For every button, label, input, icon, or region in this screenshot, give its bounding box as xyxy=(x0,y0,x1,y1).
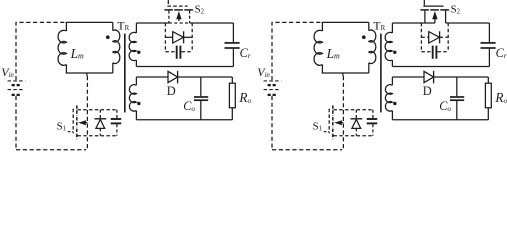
capacitor C1 bottom plate xyxy=(111,122,122,124)
transformer primary polarity dot xyxy=(362,35,366,39)
switch S2 gate lead xyxy=(423,0,425,6)
wire bottom return rail (dashed) xyxy=(272,149,342,151)
diode D1 triangle xyxy=(352,119,361,128)
transformer TR primary winding xyxy=(112,22,114,30)
switch S1 channel segments xyxy=(332,105,334,116)
capacitor Co bottom plate xyxy=(450,99,464,101)
capacitor Cr bottom plate xyxy=(225,47,240,49)
switch S1 channel segments xyxy=(76,105,78,116)
S2 snubber box right side (dashed) xyxy=(191,23,193,52)
capacitor Co top plate xyxy=(194,96,208,98)
wire primary loop top xyxy=(322,21,369,23)
wire top rail under S2 body lead xyxy=(425,22,435,24)
switch S2 channel segments xyxy=(420,9,429,11)
switch S1 gate bar (dashed) xyxy=(72,109,74,134)
battery Vin plate long 2 xyxy=(264,89,281,91)
switch S2 source lead xyxy=(189,11,191,23)
wire S1 drain rail (dashed) xyxy=(86,76,88,150)
switch S2 gate lead xyxy=(167,0,169,6)
transformer TR primary winding xyxy=(368,22,370,30)
diode D1 cathode bar xyxy=(350,118,362,120)
wire upper cell top rail left xyxy=(136,22,169,24)
wire S1 drain rail (dashed) xyxy=(342,76,344,150)
diode D2 triangle xyxy=(173,32,184,43)
capacitor Cr top plate xyxy=(225,42,240,44)
resistor Ro bottom lead xyxy=(487,108,489,120)
wire upper cell top rail right xyxy=(190,22,234,24)
diode D2 cathode bar xyxy=(183,31,185,43)
wire lower cell top rail left xyxy=(392,76,424,78)
diode D2 cathode lead xyxy=(440,36,449,38)
diode D2 anode lead xyxy=(165,36,172,38)
S2 snubber box right side (dashed) xyxy=(447,23,449,52)
wire primary loop bottom xyxy=(66,72,113,74)
battery Vin plate short 1 xyxy=(268,84,277,86)
capacitor C2 left plate xyxy=(176,46,178,59)
capacitor Cr top plate xyxy=(481,42,496,44)
switch S2 drain lead xyxy=(168,11,170,23)
wire top rail under S2 (dashed) xyxy=(169,22,190,24)
diode D cathode bar xyxy=(433,71,435,84)
capacitor Co top lead xyxy=(456,77,458,96)
capacitor Co bottom lead xyxy=(456,101,458,120)
switch S1 body arrow xyxy=(78,120,86,125)
capacitor Cr top lead xyxy=(488,23,490,42)
switch S2 body lead xyxy=(178,19,180,24)
right converter stage (S2 on) xyxy=(257,0,507,150)
wire upper cell top rail right xyxy=(446,22,490,24)
svg-text:D: D xyxy=(423,84,432,98)
diode D2 triangle xyxy=(429,32,440,43)
switch S2 gate bar xyxy=(423,5,443,7)
wire Vin negative lead (dashed) xyxy=(271,96,273,150)
diode D2 cathode bar xyxy=(439,31,441,43)
diode D cathode bar xyxy=(177,71,179,84)
upper secondary polarity dot xyxy=(137,51,140,54)
battery Vin plate long 1 xyxy=(264,80,282,82)
capacitor C1 top plate xyxy=(367,118,378,120)
switch S1 drain lead / box top edge (dashed) xyxy=(78,109,117,111)
battery Vin plate short 2 xyxy=(12,94,21,96)
switch S1 body lead (dashed) xyxy=(85,122,87,124)
capacitor Co bottom plate xyxy=(194,99,208,101)
capacitor Co top lead xyxy=(200,77,202,96)
switch S1 gate lead (dashed) xyxy=(68,131,73,133)
wire primary loop bottom xyxy=(322,72,369,74)
transformer TR core bar xyxy=(124,34,126,113)
wire lower cell top rail left xyxy=(136,76,168,78)
wire Vin positive lead (dashed) xyxy=(16,22,66,80)
diode D2 anode lead xyxy=(421,36,428,38)
capacitor C2 leads (dashed) xyxy=(165,51,175,53)
capacitor C1 leads (dashed) xyxy=(372,110,374,118)
wire upper cell top rail left xyxy=(392,22,425,24)
capacitor C2 left plate xyxy=(432,46,434,59)
diode D1 cathode lead (dashed) xyxy=(355,110,357,118)
wire bottom return rail (dashed) xyxy=(16,149,86,151)
battery Vin plate short 1 xyxy=(12,84,21,86)
capacitor Cr bottom lead xyxy=(232,49,234,67)
capacitor C1 leads (dashed) xyxy=(116,110,118,118)
capacitor Cr top lead xyxy=(232,23,234,42)
wire stub to S1 xyxy=(86,73,88,76)
diode D1 anode lead (dashed) xyxy=(355,128,357,135)
switch S1 body arrow xyxy=(334,120,342,125)
switch S1 gate lead (dashed) xyxy=(324,131,329,133)
switch S1 source lead / box bottom edge (dashed) xyxy=(78,135,117,137)
diode D1 cathode bar xyxy=(94,118,106,120)
wire Vin positive lead (dashed) xyxy=(272,22,322,80)
capacitor C2 leads (dashed) xyxy=(421,51,431,53)
capacitor Co bottom lead xyxy=(200,101,202,120)
capacitor C1 top plate xyxy=(111,118,122,120)
wire stub to S1 xyxy=(342,73,344,76)
transformer upper secondary winding xyxy=(135,23,137,33)
wire lower cell top rail right xyxy=(178,76,233,78)
switch S1 source lead / box bottom edge (dashed) xyxy=(334,135,373,137)
wire lower cell bottom rail xyxy=(392,119,488,121)
capacitor Cr bottom lead xyxy=(488,49,490,67)
inductor Lm left branch xyxy=(65,22,67,31)
transformer upper secondary winding xyxy=(391,23,393,33)
transformer TR core bar xyxy=(380,34,382,113)
wire upper cell bottom rail xyxy=(392,66,489,68)
capacitor C2 right plate xyxy=(435,46,437,59)
switch S2 source lead xyxy=(445,11,447,23)
diode D2 cathode lead xyxy=(184,36,193,38)
resistor Ro top lead xyxy=(487,77,489,83)
resistor Ro bottom lead xyxy=(231,108,233,120)
upper secondary polarity dot xyxy=(393,51,396,54)
transformer lower secondary winding xyxy=(391,77,393,85)
switch S2 body arrow xyxy=(176,11,181,19)
diode D triangle xyxy=(424,71,434,82)
resistor Ro top lead xyxy=(231,77,233,83)
wire primary loop top xyxy=(66,21,113,23)
left converter stage (S2 off / body diode conducting) xyxy=(1,0,251,150)
diode D1 anode lead (dashed) xyxy=(99,128,101,135)
wire Vin negative lead (dashed) xyxy=(15,96,17,150)
capacitor C1 bottom plate xyxy=(367,122,378,124)
inductor Lm left branch xyxy=(321,22,323,31)
lower secondary polarity dot xyxy=(393,102,396,105)
battery Vin plate short 2 xyxy=(268,94,277,96)
capacitor C2 right plate xyxy=(179,46,181,59)
capacitor Co top plate xyxy=(450,96,464,98)
resistor Ro body xyxy=(485,83,491,108)
transformer primary polarity dot xyxy=(106,35,110,39)
diode D1 triangle xyxy=(96,119,105,128)
resistor Ro body xyxy=(229,83,235,108)
S2 snubber box left side (dashed) xyxy=(420,23,422,52)
switch S2 body lead xyxy=(434,19,436,24)
S2 snubber box left side (dashed) xyxy=(164,23,166,52)
switch S2 channel segments xyxy=(164,9,173,11)
transformer lower secondary winding xyxy=(135,77,137,85)
wire upper cell bottom rail xyxy=(136,66,233,68)
battery Vin plate long 1 xyxy=(8,80,26,82)
diode D1 cathode lead (dashed) xyxy=(99,110,101,118)
switch S2 body arrow xyxy=(432,11,437,19)
switch S1 drain lead / box top edge (dashed) xyxy=(334,109,373,111)
lower secondary polarity dot xyxy=(137,102,140,105)
capacitor Cr bottom plate xyxy=(481,47,496,49)
battery Vin plate long 2 xyxy=(8,89,25,91)
diode D triangle xyxy=(168,71,178,82)
switch S2 drain lead xyxy=(424,11,426,23)
switch S1 gate bar (dashed) xyxy=(328,109,330,134)
svg-text:D: D xyxy=(167,84,176,98)
switch S1 body lead (dashed) xyxy=(341,122,343,124)
wire lower cell bottom rail xyxy=(136,119,232,121)
switch S2 gate bar xyxy=(167,5,187,7)
wire lower cell top rail right xyxy=(434,76,489,78)
